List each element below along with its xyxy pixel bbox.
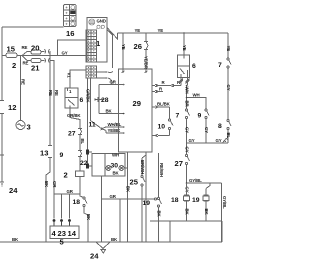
switch unit 6 left	[65, 88, 78, 108]
wire column below 9	[79, 157, 81, 172]
pin dots 29 left lower	[123, 126, 125, 128]
svg-text:BR/WH: BR/WH	[140, 160, 145, 174]
flasher unit 29 box	[119, 69, 153, 152]
connector 27 left inline	[78, 129, 82, 135]
svg-text:GY: GY	[189, 138, 195, 143]
svg-text:RE: RE	[54, 90, 59, 96]
switch 8	[227, 120, 231, 144]
fuse F20	[27, 50, 50, 55]
wire V1 from strip to switch unit	[70, 70, 86, 88]
unit 29 right pin stub	[152, 87, 163, 93]
wire GR junction down pin3	[69, 194, 71, 219]
svg-text:BK: BK	[44, 181, 49, 188]
svg-text:BK: BK	[113, 171, 120, 176]
ground funnel 24	[96, 242, 110, 253]
svg-text:GY/BL: GY/BL	[222, 196, 227, 209]
switch 9	[205, 109, 209, 143]
wire BR/WH to switch 25	[141, 158, 143, 176]
svg-text:25: 25	[130, 178, 139, 187]
connector block X16	[64, 5, 77, 27]
wire bus link verticals	[169, 221, 171, 242]
generator symbol in U1	[89, 19, 95, 25]
wire 28 left down to BK	[99, 113, 125, 115]
svg-text:26: 26	[134, 42, 142, 51]
unit 29 bottom pin right	[145, 152, 147, 242]
svg-text:13: 13	[40, 149, 48, 158]
svg-text:GY: GY	[226, 85, 231, 91]
svg-text:9: 9	[198, 113, 202, 120]
wire WH down from relay 6	[186, 86, 188, 110]
svg-text:BK: BK	[111, 237, 118, 242]
svg-text:11: 11	[89, 122, 96, 129]
wire cluster bottom to GR line and bus	[101, 176, 103, 242]
lamp symbols in U1	[97, 25, 105, 29]
wire left edge down to ground	[1, 114, 3, 183]
pin into cluster upper	[86, 150, 92, 155]
main ground bus	[0, 241, 222, 243]
wire YE right edge down	[227, 33, 229, 58]
svg-text:GY: GY	[184, 147, 189, 153]
svg-text:RE: RE	[22, 45, 28, 50]
svg-text:6: 6	[192, 63, 196, 70]
svg-text:6: 6	[80, 97, 84, 104]
svg-text:YE: YE	[226, 46, 231, 52]
fuse F15	[2, 53, 22, 58]
svg-text:RE: RE	[23, 61, 29, 66]
wire left edge down	[1, 56, 3, 101]
switch 7 upper right	[227, 58, 231, 120]
svg-text:GY: GY	[216, 138, 222, 143]
wire GY down to switch 27	[186, 143, 188, 155]
svg-text:RE: RE	[21, 79, 26, 85]
fan wires from U1 strip	[97, 71, 113, 84]
connector 12 on wire	[0, 98, 4, 116]
tick on wire	[0, 154, 4, 156]
wire below fuse 2	[79, 177, 81, 197]
svg-text:20: 20	[31, 44, 39, 53]
svg-text:19: 19	[143, 200, 151, 207]
connector pins into fuse box	[53, 219, 71, 226]
svg-text:GND: GND	[97, 19, 106, 24]
svg-text:YE: YE	[182, 45, 187, 51]
svg-text:WH: WH	[112, 153, 119, 158]
fuse 2 lower	[76, 171, 85, 177]
magneto G3	[16, 121, 25, 130]
svg-text:7: 7	[176, 113, 180, 120]
switch 7	[186, 109, 190, 143]
svg-text:YE: YE	[158, 28, 164, 33]
relay 6 bottom pins with hatch	[179, 78, 190, 86]
wire from unit 6 down to column	[70, 108, 80, 128]
wire GR junction down pin2	[61, 194, 63, 219]
svg-text:BK: BK	[156, 211, 161, 218]
wire node 2 down to magneto	[20, 56, 22, 121]
connector strip of U1	[86, 30, 97, 62]
lamp right	[119, 166, 124, 171]
unit 29 top pin ticks	[122, 71, 148, 73]
svg-text:RE/WH: RE/WH	[159, 163, 164, 177]
wire GY/BL right down	[221, 183, 223, 242]
svg-text:27: 27	[175, 159, 183, 168]
lamp 19 right	[203, 183, 210, 221]
connector 9 left inline	[78, 151, 82, 157]
pin into cluster lower	[86, 164, 92, 169]
instrument cluster box with lamps 30	[92, 154, 125, 177]
svg-text:BK: BK	[12, 237, 19, 242]
svg-text:GR: GR	[110, 194, 117, 199]
svg-text:24: 24	[9, 186, 18, 195]
svg-text:GY: GY	[204, 127, 209, 133]
svg-text:16: 16	[66, 29, 74, 38]
wire GY horizontal joining 7/9/8	[187, 142, 229, 144]
relay 6 box	[178, 55, 190, 78]
svg-text:GR/BK: GR/BK	[67, 113, 81, 118]
bus upper right	[150, 220, 222, 222]
svg-text:BK: BK	[86, 214, 91, 221]
svg-text:GR: GR	[52, 181, 57, 188]
fuse F21	[27, 58, 50, 62]
unit 29 right pin BL/BK to switch 10	[152, 106, 170, 109]
wire from strip to connector 11	[91, 78, 101, 128]
pin dot 29 left	[123, 84, 125, 86]
svg-text:RE: RE	[48, 90, 53, 96]
svg-text:GR: GR	[67, 189, 74, 194]
wire GR horizontal lower left	[54, 193, 80, 195]
junction YE	[183, 32, 185, 34]
unit 29 bottom pin left	[127, 152, 129, 242]
connector 11 Y	[101, 127, 120, 133]
wire left vertical battery feed	[1, 27, 3, 56]
switch 25	[141, 176, 145, 243]
wire from fuse 20 down (13 line)	[49, 52, 52, 146]
fuse box 4 23 14	[50, 226, 79, 239]
wire WH corner to switch 9	[187, 98, 207, 110]
svg-text:14: 14	[68, 229, 77, 238]
svg-text:10: 10	[158, 124, 166, 131]
switch 27	[186, 155, 190, 184]
wire split to fuses 20/21	[22, 52, 27, 56]
svg-text:YE: YE	[135, 28, 141, 33]
unit 29 right pin arrows to relay 6	[152, 80, 181, 87]
wire from fuse 21 down	[50, 61, 55, 219]
svg-text:27: 27	[68, 131, 76, 138]
svg-text:8: 8	[218, 123, 222, 130]
svg-text:WH: WH	[184, 87, 189, 94]
svg-text:BK: BK	[106, 109, 113, 114]
svg-text:V1: V1	[67, 73, 72, 79]
svg-text:18: 18	[171, 197, 179, 204]
svg-text:19: 19	[192, 197, 200, 204]
connector on GY wire	[223, 138, 228, 143]
switch 10	[169, 107, 174, 136]
svg-text:22: 22	[80, 160, 88, 167]
svg-text:24: 24	[90, 252, 99, 261]
svg-text:2: 2	[12, 61, 16, 70]
wire 13 down to bus	[46, 158, 50, 243]
connector 26 inline	[144, 42, 148, 50]
switch 19 mid	[158, 198, 162, 243]
svg-text:GY: GY	[184, 127, 189, 133]
wire YE drop into 29	[122, 33, 124, 73]
svg-text:12: 12	[8, 103, 16, 112]
svg-text:7: 7	[218, 62, 222, 69]
svg-text:3: 3	[27, 123, 31, 132]
wire lamp box to BK column	[124, 167, 128, 169]
svg-text:GY/BL: GY/BL	[189, 178, 202, 183]
wire bus right corner down	[221, 221, 223, 242]
wire YE bus horizontal	[118, 32, 229, 34]
wire 26 drop from YE bus	[145, 33, 147, 42]
control unit U1 box	[87, 18, 107, 63]
connector strip X2 below U1	[86, 66, 97, 78]
lamp 18 right	[184, 183, 190, 221]
svg-text:15: 15	[7, 45, 16, 54]
svg-text:30: 30	[111, 163, 119, 170]
wire main feed to unit 1 (GY)	[22, 55, 87, 57]
connector 13 inline	[48, 144, 52, 160]
svg-text:18: 18	[73, 199, 81, 206]
svg-text:28: 28	[101, 97, 109, 104]
wire GR horizontal right	[102, 198, 155, 200]
svg-text:YE/BK: YE/BK	[108, 128, 122, 133]
svg-text:GR: GR	[110, 80, 117, 85]
svg-text:BK: BK	[184, 209, 189, 216]
svg-text:2: 2	[64, 171, 68, 180]
wire GR into unit 29	[99, 84, 119, 86]
lamp left	[106, 166, 111, 171]
svg-text:GY: GY	[62, 51, 68, 56]
svg-text:GR/BK: GR/BK	[86, 89, 91, 103]
svg-text:BK: BK	[204, 209, 209, 216]
svg-text:BL: BL	[80, 139, 85, 145]
wire GR/BK from strip X2 down to cluster	[87, 78, 89, 166]
switch 18 left	[80, 194, 88, 242]
pin circle at GR end	[155, 198, 157, 200]
wire YE from bus to relay 6	[183, 33, 185, 55]
svg-text:9: 9	[60, 152, 64, 159]
wire GY/BL branch	[187, 182, 222, 184]
svg-text:BL/BK: BL/BK	[157, 102, 171, 107]
wire from GR line down to bus	[119, 199, 121, 242]
wire YE/BR into 29	[145, 50, 147, 74]
wire column BL	[79, 135, 81, 151]
svg-text:BK: BK	[125, 186, 130, 193]
svg-text:WH: WH	[193, 93, 200, 98]
connector 28	[95, 96, 104, 114]
svg-text:BR: BR	[184, 101, 189, 108]
wire diagonal from U1 top right	[107, 28, 118, 40]
svg-text:29: 29	[133, 99, 141, 108]
svg-text:BL: BL	[226, 133, 231, 139]
svg-text:YE: YE	[121, 44, 126, 50]
wire from block to U1 strip	[58, 40, 87, 56]
svg-text:WH/BL: WH/BL	[108, 122, 122, 127]
ground 24 left	[0, 182, 4, 186]
wire top-left horizontal to block	[2, 26, 64, 28]
svg-text:YE/BR: YE/BR	[144, 56, 149, 70]
wire RE/WH down to switch 19	[158, 153, 160, 198]
svg-text:21: 21	[31, 64, 40, 73]
wire back into 29	[152, 134, 170, 137]
